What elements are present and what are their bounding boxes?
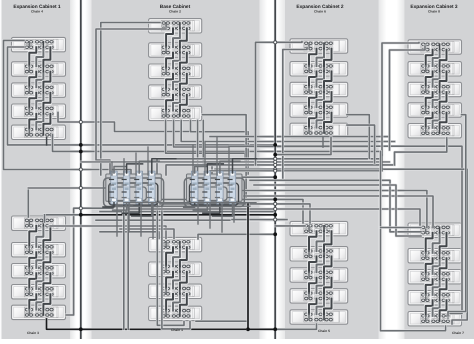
svg-text:Chain 7: Chain 7 <box>452 331 464 335</box>
svg-text:Chain 3: Chain 3 <box>27 331 39 335</box>
svg-text:Chain 5: Chain 5 <box>318 329 330 333</box>
svg-text:Chain 1: Chain 1 <box>171 328 183 332</box>
svg-text:Chain 8: Chain 8 <box>428 10 440 14</box>
svg-text:Chain 4: Chain 4 <box>31 10 43 14</box>
svg-text:Chain 2: Chain 2 <box>169 10 181 14</box>
svg-text:Chain 6: Chain 6 <box>314 10 326 14</box>
